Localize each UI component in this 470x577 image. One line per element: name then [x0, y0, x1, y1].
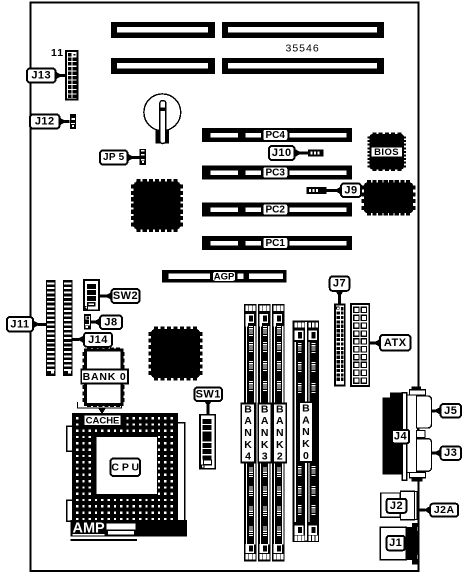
svg-text:J7: J7	[333, 278, 346, 290]
bracket top tab black	[411, 386, 421, 391]
DIMM socket BANK 3	[258, 304, 271, 561]
connector J1 black body	[405, 523, 420, 565]
svg-text:B: B	[302, 402, 310, 414]
label J2A	[430, 504, 458, 517]
svg-text:J2: J2	[390, 500, 403, 512]
svg-text:J2A: J2A	[434, 504, 455, 516]
svg-text:PC3: PC3	[265, 167, 285, 178]
svg-text:3: 3	[262, 451, 268, 463]
svg-text:CACHE: CACHE	[86, 415, 120, 426]
connector J1 box	[380, 527, 406, 560]
CPU socket body with pin grid	[72, 413, 178, 521]
battery base	[156, 130, 170, 144]
svg-text:J10: J10	[272, 147, 292, 159]
svg-text:K: K	[276, 439, 284, 451]
label J2	[387, 499, 407, 513]
svg-text:J13: J13	[31, 70, 51, 82]
wire J8 label to header	[91, 318, 100, 326]
chip U2 (beside J9)	[362, 180, 416, 215]
svg-text:J4: J4	[394, 431, 408, 443]
DIP switch SW2	[84, 280, 99, 310]
svg-text:ATX: ATX	[384, 337, 407, 349]
svg-text:B: B	[244, 403, 252, 415]
chip U3 (left of DIMM banks)	[149, 327, 203, 381]
svg-text:K: K	[261, 439, 269, 451]
connector J8 3-pin header	[84, 314, 91, 330]
connector J12 3-pin header	[70, 114, 76, 129]
svg-text:J8: J8	[104, 316, 117, 328]
wire J13 label to header	[56, 72, 67, 80]
svg-text:K: K	[302, 438, 310, 450]
svg-text:K: K	[244, 439, 252, 451]
wire J2A label to connector	[420, 506, 431, 514]
svg-text:N: N	[261, 427, 269, 439]
socket left tab 1	[67, 426, 74, 451]
top mount tab	[410, 390, 426, 395]
memory connector bar 2 (J14)	[63, 280, 73, 376]
label CACHE	[84, 415, 122, 427]
connector J13 pin header	[66, 51, 78, 100]
svg-text:AGP: AGP	[214, 271, 235, 282]
wire J3 label to connector	[432, 449, 441, 457]
label BANK 4	[241, 403, 255, 462]
PCI slot PC3	[202, 166, 352, 180]
line under AMP bar	[71, 539, 138, 541]
label J13	[27, 69, 56, 83]
PCI slot PC2	[202, 203, 352, 217]
svg-text:A: A	[302, 414, 310, 426]
connector ATX power	[351, 304, 369, 386]
ISA slot 1 rear segment	[111, 22, 215, 38]
label J3	[441, 446, 462, 460]
svg-text:0: 0	[303, 450, 309, 462]
label SW2	[112, 289, 140, 303]
brace from cache chip to CACHE label	[78, 402, 122, 414]
cache chip BANK 0	[83, 348, 125, 408]
wire JP5 label to header	[128, 154, 140, 162]
wire J5 label to connector	[432, 407, 441, 415]
connector J9 3-pin jumper	[307, 187, 327, 194]
svg-text:N: N	[276, 427, 284, 439]
DIMM socket BANK 4	[244, 304, 257, 561]
wire J11 label to bar	[33, 320, 46, 328]
svg-text:J14: J14	[88, 334, 108, 346]
socket side strip	[174, 423, 185, 522]
label BIOS	[371, 147, 403, 158]
label J12	[30, 115, 60, 129]
svg-text:SW1: SW1	[196, 388, 221, 400]
svg-text:B: B	[261, 403, 269, 415]
svg-text:N: N	[302, 426, 310, 438]
label J9	[341, 184, 361, 198]
svg-text:PC2: PC2	[265, 204, 285, 215]
label J1	[387, 536, 405, 550]
label J5	[441, 404, 462, 418]
label J4	[392, 430, 409, 444]
middle tab	[417, 431, 426, 438]
ISA slot 1 front segment	[222, 22, 384, 38]
label J14	[84, 333, 112, 347]
AGP slot	[162, 270, 287, 283]
svg-text:JP 5: JP 5	[103, 152, 125, 163]
svg-text:A: A	[261, 415, 269, 427]
wire J12 label to header	[60, 118, 70, 126]
ISA slot 2 rear segment	[111, 58, 215, 74]
label BANK 3	[258, 403, 271, 462]
bottom mount tab	[410, 472, 426, 477]
svg-text:BANK 0: BANK 0	[83, 371, 127, 383]
BIOS chip	[368, 133, 406, 171]
svg-text:C P U: C P U	[111, 461, 139, 473]
svg-text:PC4: PC4	[265, 130, 285, 141]
svg-text:J9: J9	[344, 184, 357, 196]
wire ATX label to connector	[369, 339, 380, 347]
svg-text:B: B	[276, 403, 284, 415]
bracket bottom tab black	[411, 477, 422, 482]
svg-text:N: N	[244, 427, 252, 439]
label BANK 0	[81, 370, 128, 384]
jumper JP5 3-pin header	[140, 149, 146, 165]
svg-text:J12: J12	[35, 116, 55, 128]
wire J9 label to jumper	[327, 187, 342, 195]
connector body white area	[406, 395, 418, 473]
svg-text:J3: J3	[444, 447, 457, 459]
ISA slot 2 front segment	[222, 58, 384, 74]
wire J14 label to bar	[73, 335, 85, 343]
svg-text:35546: 35546	[286, 43, 320, 55]
socket left tab 2	[67, 500, 74, 521]
svg-text:J11: J11	[10, 318, 29, 330]
svg-text:PC1: PC1	[265, 238, 285, 249]
wire J7 label down to header	[336, 291, 344, 305]
battery circle	[144, 94, 181, 131]
label J7	[330, 276, 350, 291]
label J8	[100, 316, 122, 330]
label SW1	[195, 388, 223, 402]
label ATX	[380, 335, 411, 351]
svg-text:BIOS: BIOS	[374, 147, 399, 158]
svg-text:A: A	[244, 415, 252, 427]
wire J10 label to jumper	[295, 149, 308, 157]
chip U1 (north of JP5)	[131, 179, 183, 232]
svg-text:4: 4	[245, 451, 251, 463]
svg-text:A: A	[276, 415, 284, 427]
DIP switch SW1	[200, 415, 215, 469]
D-sub connector J5	[417, 396, 432, 428]
PCI slot PC4	[202, 128, 352, 142]
DIMM socket BANK 0	[293, 321, 320, 542]
connector J4 port stack body	[383, 393, 405, 475]
memory connector bar 1 (J11)	[46, 280, 56, 376]
svg-text:SW2: SW2	[113, 290, 138, 302]
wire SW1 label down to switch	[204, 401, 212, 415]
svg-text:2: 2	[277, 451, 283, 463]
DIMM socket BANK 2	[272, 304, 285, 561]
PCI slot PC1	[202, 236, 352, 250]
connector J10 3-pin jumper	[308, 150, 324, 157]
label BANK 2	[273, 403, 286, 462]
label J11	[7, 317, 33, 332]
AMP socket lever bar	[71, 520, 188, 537]
label BANK 0	[299, 402, 313, 462]
label J10	[269, 146, 295, 160]
connector J2 body	[381, 491, 417, 519]
battery key	[160, 101, 166, 144]
bracket strip	[402, 393, 407, 481]
label JP5	[100, 151, 128, 165]
svg-text:11: 11	[51, 47, 64, 59]
D-sub connector J3	[417, 439, 432, 472]
label CPU	[111, 459, 141, 477]
wire SW2 label to switch	[99, 292, 112, 300]
svg-text:J5: J5	[444, 405, 457, 417]
connector J7 2x18 header	[335, 305, 345, 386]
svg-text:J1: J1	[389, 537, 402, 549]
